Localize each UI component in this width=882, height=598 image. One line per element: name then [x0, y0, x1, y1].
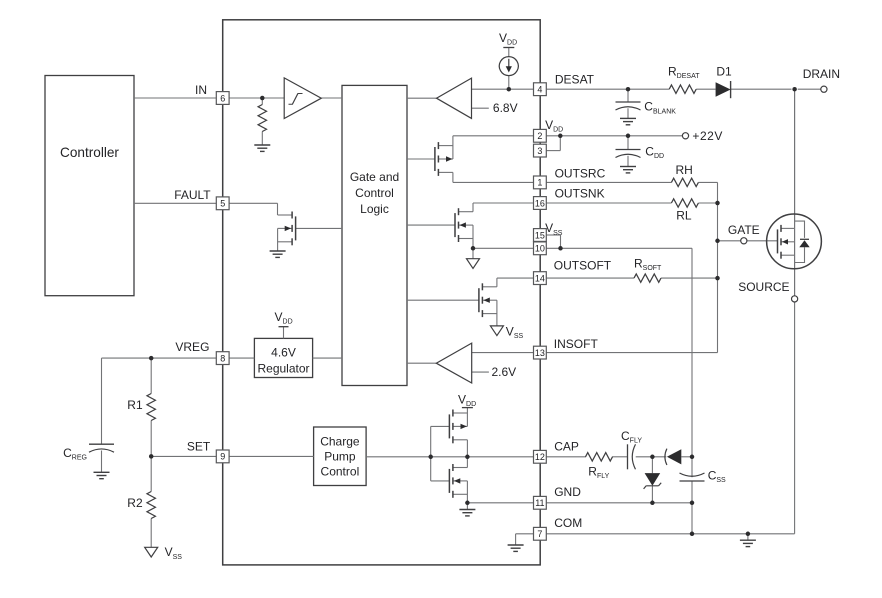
svg-text:VREG: VREG [175, 340, 209, 354]
svg-text:SOURCE: SOURCE [738, 280, 789, 294]
svg-text:RL: RL [676, 209, 692, 223]
svg-text:2: 2 [537, 131, 542, 141]
svg-text:7: 7 [537, 529, 542, 539]
svg-text:INSOFT: INSOFT [554, 337, 599, 351]
svg-text:Regulator: Regulator [257, 362, 309, 376]
svg-text:1: 1 [537, 178, 542, 188]
svg-text:FAULT: FAULT [174, 188, 211, 202]
svg-text:OUTSOFT: OUTSOFT [554, 258, 612, 272]
svg-text:GATE: GATE [728, 223, 760, 237]
svg-text:R2: R2 [127, 496, 143, 510]
svg-text:D1: D1 [716, 64, 732, 78]
svg-text:Pump: Pump [324, 450, 356, 464]
svg-text:GND: GND [554, 485, 581, 499]
svg-text:6: 6 [220, 93, 225, 103]
svg-text:Controller: Controller [60, 145, 119, 160]
svg-text:DESAT: DESAT [555, 73, 595, 87]
svg-text:12: 12 [535, 452, 545, 462]
svg-text:13: 13 [535, 348, 545, 358]
svg-text:3: 3 [537, 146, 542, 156]
svg-text:R1: R1 [127, 398, 143, 412]
svg-text:IN: IN [195, 83, 207, 97]
svg-text:CAP: CAP [554, 439, 579, 453]
svg-text:Logic: Logic [360, 202, 389, 216]
svg-text:16: 16 [535, 198, 545, 208]
svg-text:14: 14 [535, 273, 545, 283]
svg-text:Control: Control [321, 465, 360, 479]
svg-text:8: 8 [220, 353, 225, 363]
svg-text:OUTSNK: OUTSNK [555, 186, 605, 200]
svg-text:10: 10 [535, 244, 545, 254]
svg-text:6.8V: 6.8V [493, 101, 518, 115]
svg-text:COM: COM [554, 516, 582, 530]
svg-text:SET: SET [187, 439, 211, 453]
svg-text:RH: RH [676, 163, 693, 177]
svg-text:Control: Control [355, 186, 394, 200]
svg-text:9: 9 [220, 452, 225, 462]
svg-text:DRAIN: DRAIN [803, 67, 840, 81]
svg-text:11: 11 [535, 498, 544, 508]
svg-text:Gate and: Gate and [350, 170, 399, 184]
svg-text:5: 5 [220, 199, 225, 209]
svg-text:4.6V: 4.6V [271, 346, 296, 360]
svg-text:4: 4 [537, 85, 542, 95]
svg-text:Charge: Charge [320, 435, 360, 449]
svg-text:+22V: +22V [692, 129, 723, 143]
svg-text:15: 15 [535, 230, 545, 240]
svg-text:OUTSRC: OUTSRC [555, 166, 606, 180]
svg-text:2.6V: 2.6V [492, 365, 517, 379]
